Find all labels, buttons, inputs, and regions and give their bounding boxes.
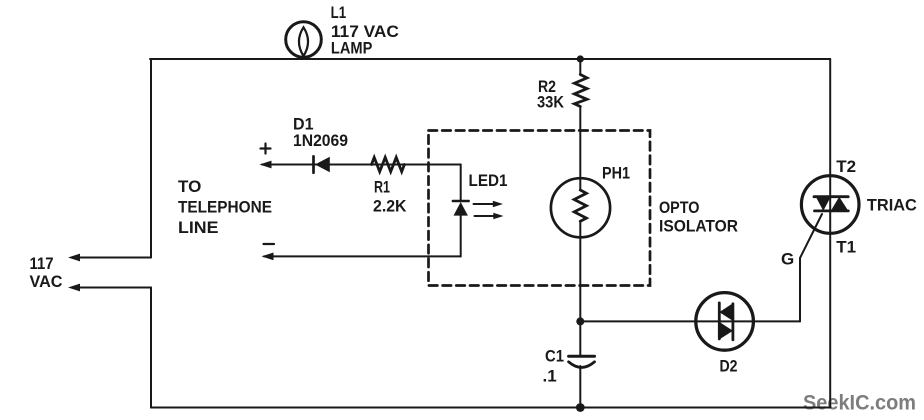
plus sign (261, 144, 271, 154)
triac right triangle (831, 197, 849, 211)
wire 117VAC lower arrow (78, 287, 151, 289)
svg-text:33K: 33K (537, 93, 565, 112)
opto isolator dashed box (429, 131, 651, 286)
resistor R2 (574, 75, 587, 107)
wire telephone minus line (264, 255, 461, 257)
node top junction (577, 55, 584, 62)
LED1 emission arrows (474, 203, 496, 205)
svg-text:T2: T2 (836, 157, 856, 176)
triac left triangle (816, 197, 831, 211)
svg-text:VAC: VAC (30, 272, 63, 291)
svg-text:LED1: LED1 (469, 171, 508, 190)
svg-text:D2: D2 (720, 357, 738, 376)
svg-text:TELEPHONE: TELEPHONE (178, 198, 272, 217)
minus sign (264, 243, 275, 245)
LED1 (460, 165, 462, 202)
node C1/D2 junction (576, 317, 584, 325)
diac lower triangle (719, 322, 733, 340)
photocell PH1 (551, 178, 610, 237)
svg-text:OPTO: OPTO (659, 198, 700, 217)
svg-text:LAMP: LAMP (331, 39, 373, 58)
triac bottom bar (815, 209, 849, 212)
svg-text:2.2K: 2.2K (373, 197, 407, 216)
svg-text:T1: T1 (836, 238, 856, 257)
svg-text:LINE: LINE (178, 218, 219, 237)
diode D1 (312, 156, 315, 172)
wire right rail (829, 59, 831, 408)
svg-text:117: 117 (30, 254, 54, 273)
svg-text:G: G (781, 250, 794, 269)
wire bottom rail (151, 407, 830, 409)
capacitor C1 (569, 355, 595, 358)
svg-text:SeekIC.com: SeekIC.com (803, 392, 916, 415)
wire R2 to PH1 (579, 107, 581, 191)
svg-text:L1: L1 (331, 3, 347, 22)
svg-text:TO: TO (178, 177, 201, 196)
triac circle (801, 176, 859, 234)
svg-text:1N2069: 1N2069 (293, 131, 348, 150)
wire gate G (800, 214, 822, 321)
lamp L1 (286, 22, 322, 58)
triac top bar (814, 195, 848, 198)
svg-text:ISOLATOR: ISOLATOR (659, 217, 738, 236)
diac upper triangle (719, 303, 733, 321)
svg-text:C1: C1 (545, 347, 564, 366)
wire left rail upper (150, 59, 152, 258)
wire C1 to gate (580, 320, 800, 322)
svg-text:.1: .1 (543, 367, 557, 386)
svg-text:TRIAC: TRIAC (867, 196, 917, 215)
svg-text:R1: R1 (374, 178, 390, 197)
wire 117VAC upper arrow (78, 257, 151, 259)
wire center column upper (579, 59, 581, 75)
wire left rail lower (150, 288, 152, 408)
diac D2 (696, 293, 754, 351)
resistor R1 (372, 157, 405, 171)
node bottom junction (576, 403, 585, 412)
photocell zigzag (574, 190, 586, 221)
wire telephone plus line (262, 164, 461, 166)
wire PH1 to C1 (579, 221, 581, 356)
svg-text:PH1: PH1 (602, 164, 630, 183)
wire top rail (150, 58, 830, 60)
diac right bar (732, 304, 735, 340)
diac left bar (718, 303, 721, 339)
